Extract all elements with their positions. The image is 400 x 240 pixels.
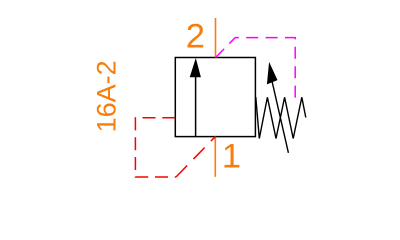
- svg-text:2: 2: [186, 18, 205, 56]
- port 2 line (top, orange): [215, 18, 217, 58]
- drain line diagonal (red dashed) to port 1: [176, 137, 215, 177]
- svg-text:16A-2: 16A-2: [91, 60, 121, 132]
- valve body (square): [175, 58, 255, 137]
- spring (zigzag): [256, 97, 306, 139]
- drain line (red dashed): from left side of valve around bottom-left: [135, 118, 176, 177]
- flow path arrow shaft (inside valve): [195, 76, 197, 137]
- flow path arrowhead: [190, 58, 201, 77]
- adjustment arrowhead: [267, 62, 278, 85]
- svg-text:1: 1: [222, 138, 241, 176]
- port 1 line (bottom, orange): [214, 137, 216, 177]
- adjustment arrow shaft (crosses spring): [272, 82, 288, 153]
- pilot line (magenta dashed): from port 2 up-right, across, down to spring top: [216, 38, 296, 98]
